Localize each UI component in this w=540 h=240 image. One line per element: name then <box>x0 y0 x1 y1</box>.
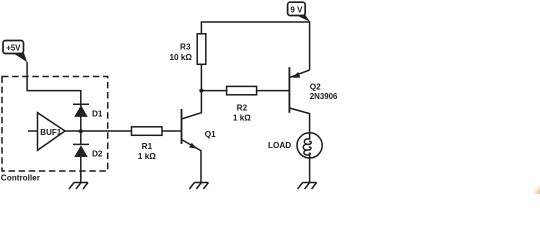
svg-text:2N3906: 2N3906 <box>310 92 338 101</box>
svg-text:Controller: Controller <box>1 174 41 183</box>
svg-text:R3: R3 <box>180 42 191 51</box>
svg-text:BUF1: BUF1 <box>40 128 61 137</box>
svg-text:1 kΩ: 1 kΩ <box>233 114 251 123</box>
svg-text:9 V: 9 V <box>290 5 303 14</box>
svg-text:D2: D2 <box>92 150 103 159</box>
svg-text:Q2: Q2 <box>310 83 321 92</box>
svg-text:D1: D1 <box>92 110 103 119</box>
svg-text:+5V: +5V <box>6 44 21 53</box>
svg-text:R2: R2 <box>237 104 248 113</box>
svg-text:10 kΩ: 10 kΩ <box>170 53 193 62</box>
svg-text:R1: R1 <box>142 142 153 151</box>
svg-text:Q1: Q1 <box>205 130 216 139</box>
svg-text:1 kΩ: 1 kΩ <box>138 152 156 161</box>
svg-text:LOAD: LOAD <box>268 141 291 150</box>
